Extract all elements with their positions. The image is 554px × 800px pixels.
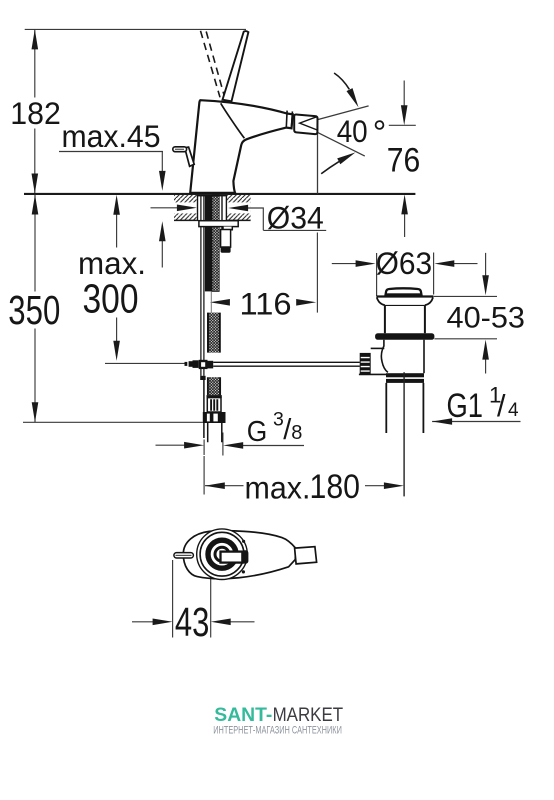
hose end reference line (350 bottom) xyxy=(23,421,203,423)
dimension 76 line xyxy=(403,81,405,238)
rubber seal ring xyxy=(375,333,434,339)
dimension 43 line xyxy=(132,621,255,623)
shank right tube wall xyxy=(225,195,227,221)
svg-text:76: 76 xyxy=(387,141,421,179)
arrow 182 top xyxy=(32,29,39,49)
cap base band xyxy=(386,293,422,296)
connection tube right xyxy=(221,230,231,248)
arrow max.300 top xyxy=(113,195,120,215)
top view inner ring xyxy=(215,547,229,561)
top view body outline xyxy=(183,531,295,579)
svg-text:350: 350 xyxy=(8,287,60,333)
pop-up rod thin line xyxy=(105,362,185,364)
top view lever bar xyxy=(221,552,243,563)
connection tube end xyxy=(221,246,231,252)
svg-text:8: 8 xyxy=(291,422,302,444)
arrow max.45 down to deck xyxy=(159,171,166,191)
nut plate step xyxy=(223,227,232,230)
top view outer circle xyxy=(197,529,248,580)
arrow 350 bottom xyxy=(32,402,39,422)
knurled rod nut xyxy=(360,353,371,375)
hose axis line in gap xyxy=(210,292,212,313)
svg-text:SANT-: SANT- xyxy=(214,704,272,726)
svg-text:G1: G1 xyxy=(447,387,484,425)
spout outlet reference line xyxy=(389,124,416,126)
dimension Ø63 extension lines xyxy=(377,253,434,297)
arrow 76 bottom xyxy=(401,194,408,214)
top view pop-up stub xyxy=(174,553,194,558)
horizontal pop-up rod to drain xyxy=(213,362,360,366)
hose ribbed fitting xyxy=(207,398,221,412)
top view second circle xyxy=(200,532,244,576)
arrow Ø34 left xyxy=(177,205,197,212)
dimension Ø34 leader xyxy=(151,208,327,231)
svg-text:182: 182 xyxy=(10,95,61,131)
top view cartridge ring xyxy=(208,540,236,568)
dimension G1 1/4 leader xyxy=(432,421,520,423)
arrow max.180 left xyxy=(205,482,225,489)
arrow 182 bottom xyxy=(32,174,39,194)
aerator flow wedge xyxy=(300,117,317,130)
svg-text:4: 4 xyxy=(508,400,519,421)
svg-text:MARKET: MARKET xyxy=(273,704,344,726)
svg-text:40-53: 40-53 xyxy=(447,301,526,334)
top view lever end cap xyxy=(241,550,248,563)
faucet body xyxy=(190,100,293,193)
arrow 350 top xyxy=(32,195,39,215)
arrow max.300 bottom xyxy=(113,341,120,361)
svg-text:G: G xyxy=(247,416,267,448)
spray angle 40 deg rays xyxy=(312,106,368,156)
waste cylinder walls xyxy=(385,305,425,333)
hatch mask corridor for dimension arrows xyxy=(174,202,197,213)
rod lower tip xyxy=(200,376,205,380)
arrow 40-53 top xyxy=(482,275,489,295)
top view aerator box xyxy=(295,547,317,564)
aerator head xyxy=(294,114,317,134)
drain axis line xyxy=(403,372,405,496)
spray angle arc lower xyxy=(321,162,339,174)
dimension 350 line xyxy=(34,195,36,423)
arrow Ø63 left xyxy=(356,260,376,267)
valve body left bulge xyxy=(381,340,387,373)
waste flange top xyxy=(376,295,433,297)
bottom flange band 1 xyxy=(386,373,424,377)
G 3/8 hose nut xyxy=(203,412,226,423)
hose collar band xyxy=(207,395,222,398)
arrow arc upper xyxy=(347,88,359,107)
hose dimension extension lines xyxy=(204,433,223,495)
arrow max.180 right xyxy=(384,482,404,489)
arrow 76 top xyxy=(401,105,408,125)
arrow hose left xyxy=(184,442,204,449)
pop-up waste cap xyxy=(385,288,421,296)
rod joint knob xyxy=(193,360,199,368)
svg-text:180: 180 xyxy=(310,468,361,506)
arrow G1 1/4 xyxy=(432,418,452,425)
top view screw dot lower xyxy=(242,570,245,573)
threaded shank solid half xyxy=(205,195,212,291)
arrow 43 right xyxy=(211,619,231,626)
arrow arc lower xyxy=(337,152,355,164)
svg-text:Ø34: Ø34 xyxy=(267,200,324,236)
arrow 116 right xyxy=(296,299,316,306)
body-spout crease line xyxy=(221,103,245,138)
arrow up to deck bottom xyxy=(159,221,166,241)
dimension Ø63 tails xyxy=(332,263,478,265)
flexible hose upper segment xyxy=(209,313,219,353)
mounting deck line xyxy=(24,193,415,195)
dimension max.180 line xyxy=(205,485,385,487)
deck section hatch left xyxy=(174,195,197,220)
arrow Ø34 right xyxy=(228,205,248,212)
dimension 40-53 extension lines xyxy=(434,296,497,338)
svg-text:300: 300 xyxy=(83,276,139,322)
hose end tube xyxy=(208,423,222,442)
waste neck line xyxy=(385,304,425,306)
pop-up rod lower extension xyxy=(203,380,205,438)
hose diameter dimension lines xyxy=(156,444,305,446)
top reference line (spout tip level) xyxy=(25,28,246,30)
lever handle blade xyxy=(223,31,249,101)
arrow 116 left xyxy=(210,299,230,306)
svg-text:40: 40 xyxy=(337,113,368,149)
dimension 116 right extension line xyxy=(316,233,318,313)
shank top black cap xyxy=(197,195,227,197)
rod joint small pin xyxy=(185,362,188,366)
shank right inner wall xyxy=(221,195,223,230)
arrow 40-53 bottom xyxy=(482,340,489,360)
arrow hose right / G 3-8 leader xyxy=(223,442,243,449)
svg-text:43: 43 xyxy=(175,599,210,645)
bottom flange band 2 xyxy=(386,379,424,383)
side port top edge xyxy=(371,347,385,349)
threaded shank hatched half xyxy=(212,195,219,291)
spout ring lines xyxy=(286,111,292,129)
shank left tube wall xyxy=(197,195,199,221)
shank hole xyxy=(197,195,227,220)
dimension 43 extension lines xyxy=(173,560,211,638)
deck section bottom line xyxy=(174,219,251,221)
degree symbol xyxy=(376,121,384,129)
aerator tip vertical line xyxy=(317,126,319,194)
arrow Ø63 right xyxy=(434,260,454,267)
pop-up actuator knob xyxy=(185,147,195,166)
flexible hose lower segment xyxy=(209,377,220,395)
svg-text:116: 116 xyxy=(240,285,292,321)
svg-text:/: / xyxy=(497,389,506,423)
mounting nut plate xyxy=(199,221,238,227)
waste flange sides xyxy=(377,298,433,306)
lever handle alternate position dashed xyxy=(201,31,225,98)
rod joint block xyxy=(199,360,208,369)
dimension max.300 line xyxy=(116,213,118,343)
rod joint right cap xyxy=(208,361,214,369)
pop-up vertical rod xyxy=(201,195,204,376)
svg-text:max.45: max.45 xyxy=(62,118,161,154)
dimension 40-53 line xyxy=(485,253,487,374)
dimension 182 line xyxy=(34,29,36,193)
valve body right wall xyxy=(423,340,425,374)
side port bottom edge xyxy=(359,373,388,375)
svg-text:ИНТЕРНЕТ-МАГАЗИН САНТЕХНИКИ: ИНТЕРНЕТ-МАГАЗИН САНТЕХНИКИ xyxy=(213,725,342,737)
max.45 leader underline xyxy=(59,152,163,173)
deck-bottom arrow tail (max.45) xyxy=(161,240,163,268)
deck section hatch right xyxy=(227,195,251,220)
top view screw dot upper xyxy=(242,540,245,543)
svg-text:max.: max. xyxy=(245,470,311,506)
arrow 43 left xyxy=(153,619,173,626)
spray angle arc upper xyxy=(334,73,349,89)
svg-text:Ø63: Ø63 xyxy=(376,245,433,281)
drain tailpipe walls xyxy=(386,383,423,433)
